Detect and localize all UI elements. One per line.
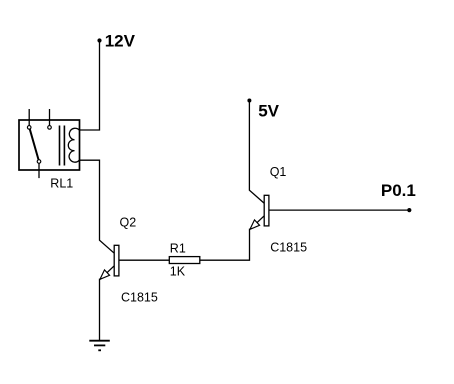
- svg-text:12V: 12V: [105, 31, 136, 50]
- svg-text:P0.1: P0.1: [381, 181, 416, 200]
- svg-text:Q2: Q2: [120, 216, 137, 230]
- node 5V dot: [247, 99, 251, 103]
- resistor R1 body: [169, 257, 200, 264]
- wire Q2 base to R1: [119, 259, 169, 261]
- node 12V dot: [97, 38, 101, 42]
- wire R1 to Q1 emitter: [200, 229, 250, 260]
- node P0.1 dot: [407, 208, 411, 212]
- relay pin top-left wire: [28, 109, 30, 125]
- transistor Q2 emitter arrowhead: [100, 270, 110, 279]
- relay coil winding: [68, 128, 79, 162]
- ground: [89, 341, 110, 351]
- relay pin top-mid wire: [49, 109, 51, 125]
- svg-text:C1815: C1815: [121, 290, 158, 304]
- transistor Q2 emitter wire with arrow to ground: [100, 266, 115, 341]
- relay switch arm: [30, 129, 39, 159]
- relay pin bottom wire: [38, 163, 40, 178]
- wire relay coil bottom to Q2 collector: [79, 160, 114, 253]
- wire 12V to relay coil top: [79, 41, 99, 131]
- svg-text:1K: 1K: [170, 265, 186, 279]
- svg-text:5V: 5V: [258, 102, 279, 121]
- relay core bar 1: [59, 126, 61, 166]
- svg-text:RL1: RL1: [50, 176, 73, 190]
- relay RL1 body: [19, 120, 80, 170]
- transistor Q1 emitter arrowhead: [250, 220, 260, 229]
- relay core bar 2: [63, 126, 65, 166]
- wire Q1 base to P0.1: [269, 209, 409, 211]
- relay contact circle bottom: [37, 160, 41, 164]
- transistor Q1 emitter wire with arrow: [250, 216, 264, 230]
- relay contact circle top-left: [27, 126, 31, 130]
- svg-text:Q1: Q1: [270, 165, 287, 179]
- svg-text:R1: R1: [170, 242, 186, 256]
- transistor Q2 base bar: [114, 245, 119, 276]
- wire 5V to Q1 collector: [249, 101, 264, 204]
- transistor Q1 base bar: [264, 195, 269, 226]
- relay contact circle top-mid: [48, 126, 52, 130]
- svg-text:C1815: C1815: [270, 241, 307, 255]
